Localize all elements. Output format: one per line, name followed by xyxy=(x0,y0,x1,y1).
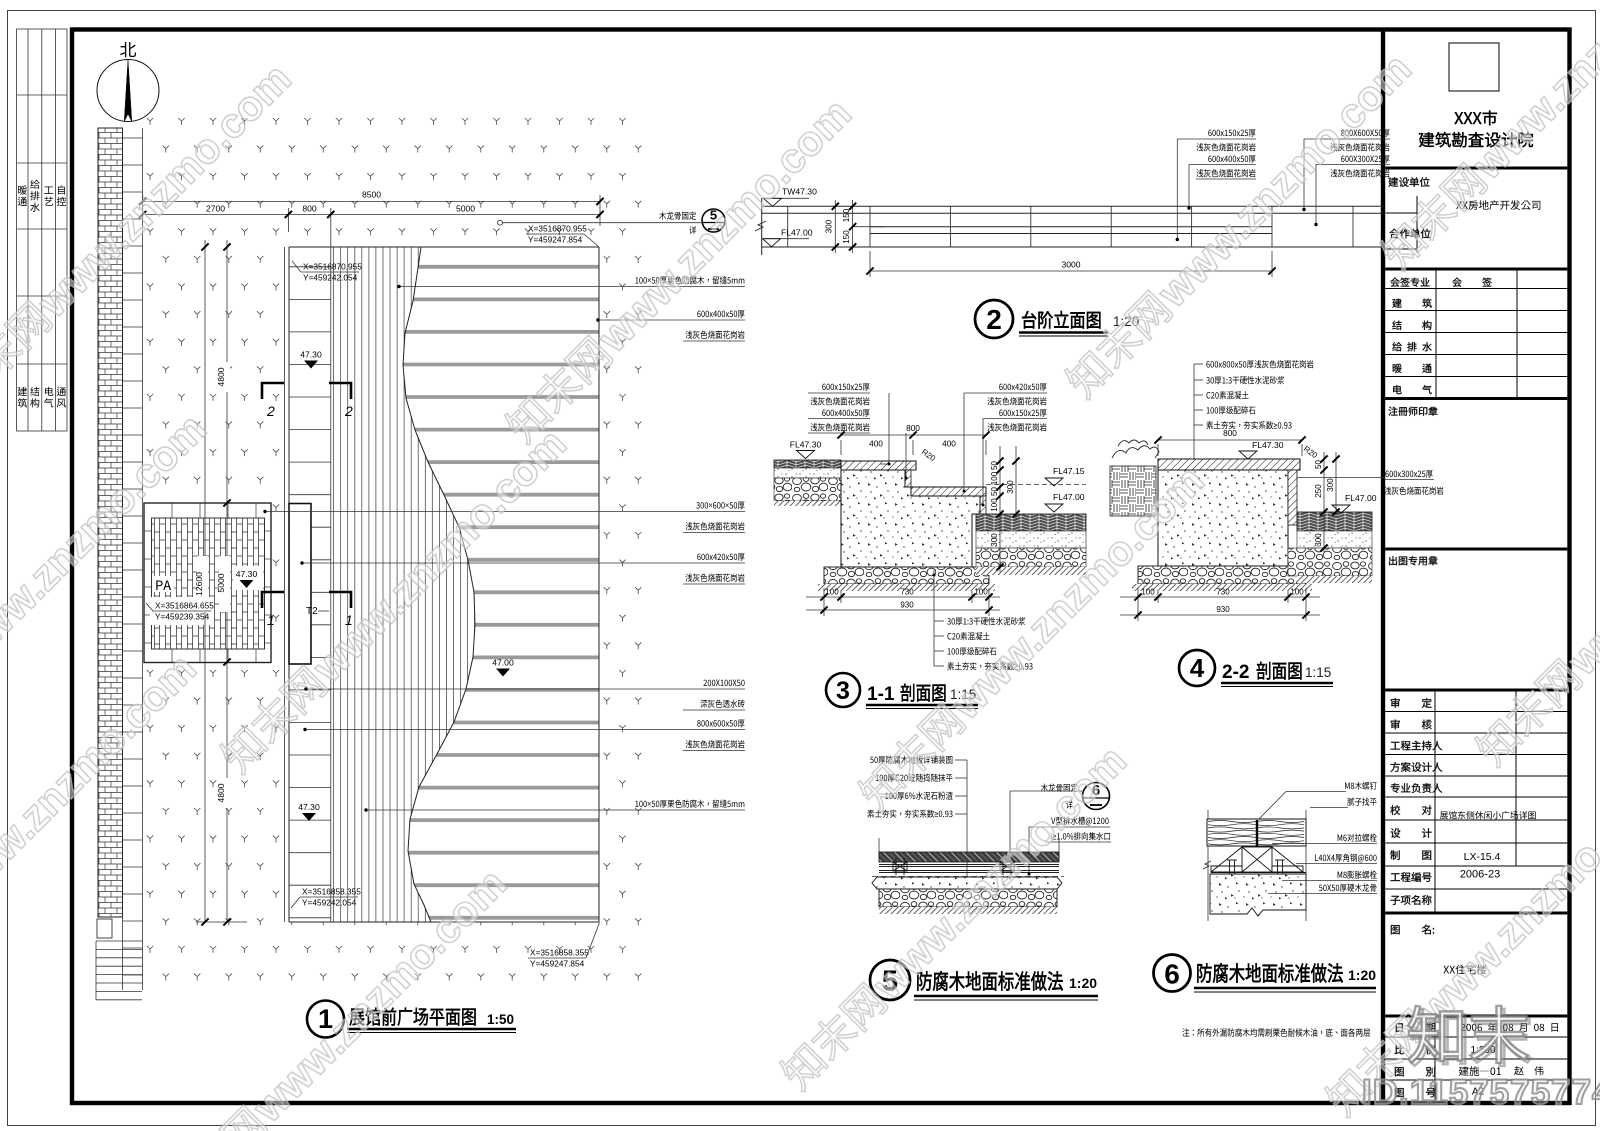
d6 angle steel with X xyxy=(1211,847,1303,872)
svg-text:730: 730 xyxy=(1216,588,1230,597)
svg-text:2700: 2700 xyxy=(206,204,225,214)
svg-text:4: 4 xyxy=(1190,653,1205,683)
svg-text:Y=459247.854: Y=459247.854 xyxy=(530,959,585,969)
svg-text:FL47.30: FL47.30 xyxy=(1252,440,1284,450)
title 4 xyxy=(1179,650,1215,686)
svg-text:Y=459247.854: Y=459247.854 xyxy=(528,235,583,245)
d6 center screw xyxy=(1256,820,1258,851)
svg-text:47.00: 47.00 xyxy=(492,658,514,668)
deck outline xyxy=(289,247,599,922)
svg-text:800: 800 xyxy=(906,423,920,433)
2-2 base gravel xyxy=(1138,566,1306,584)
north arrow xyxy=(97,60,159,122)
1-1 tread slabs xyxy=(841,461,916,470)
section marker 2-2 xyxy=(262,383,351,399)
svg-text:5000: 5000 xyxy=(216,573,226,592)
bench slab on walkway xyxy=(289,504,311,665)
owner rows xyxy=(1388,177,1429,187)
coord note walkway NW xyxy=(303,262,362,283)
svg-text:930: 930 xyxy=(900,601,914,610)
title block divider xyxy=(1381,28,1385,1106)
svg-text:730: 730 xyxy=(900,588,914,597)
svg-text:FL47.00: FL47.00 xyxy=(1053,492,1085,502)
curb band along wall xyxy=(123,128,143,990)
svg-text:300: 300 xyxy=(825,219,834,233)
detail5 title xyxy=(917,971,1063,990)
svg-text:300: 300 xyxy=(1326,478,1335,492)
svg-text:100: 100 xyxy=(1290,588,1304,597)
svg-text:930: 930 xyxy=(1216,605,1230,614)
label 浅灰色烧面花岗岩 xyxy=(685,522,744,530)
PA border joints xyxy=(144,503,271,663)
svg-text:47.30: 47.30 xyxy=(298,802,320,812)
label 100×50厚栗色防腐木，留缝5mm xyxy=(635,800,744,808)
svg-text:12600: 12600 xyxy=(194,572,204,596)
step height dims xyxy=(835,200,885,253)
leader: wood batten ref bubble xyxy=(498,220,503,225)
label 浅灰色烧面花岗岩 xyxy=(685,740,744,748)
plan material leaders xyxy=(399,286,745,288)
deck plank hatch vertical lines xyxy=(334,247,475,922)
svg-text:47.30: 47.30 xyxy=(236,569,258,579)
title 6 xyxy=(1154,955,1191,992)
label 100×50厚栗色防腐木，留缝5mm xyxy=(635,276,744,284)
svg-text:X=3516858.355: X=3516858.355 xyxy=(530,948,589,958)
label 600x400x50厚 xyxy=(697,310,744,318)
1-1 right dims xyxy=(1000,446,1016,572)
svg-text:800: 800 xyxy=(302,204,317,214)
dim 3000 xyxy=(870,251,1272,277)
d5 gravel xyxy=(879,889,1057,907)
svg-text:2006-23: 2006-23 xyxy=(1460,869,1500,881)
label 300×600×50厚 xyxy=(696,502,744,510)
big zhimo logo xyxy=(1411,1009,1531,1066)
svg-text:X=3516864.655: X=3516864.655 xyxy=(155,601,214,611)
d6 base line xyxy=(1211,872,1306,874)
svg-text:100: 100 xyxy=(825,588,839,597)
svg-text:100: 100 xyxy=(990,498,999,512)
step joints xyxy=(788,206,1353,247)
detail bubble 5 xyxy=(702,208,725,233)
granite band stripes xyxy=(336,267,599,918)
label xiang xyxy=(689,226,696,234)
title 2 step elevation xyxy=(975,300,1013,338)
svg-text:5000: 5000 xyxy=(456,204,475,214)
date scale rows xyxy=(1396,1023,1435,1033)
svg-text:2: 2 xyxy=(986,304,1002,335)
d5 joist clips xyxy=(893,858,907,875)
title block xyxy=(1385,43,1567,1101)
d6 concrete xyxy=(1210,874,1306,916)
svg-text:1: 1 xyxy=(267,612,275,628)
svg-text:3000: 3000 xyxy=(1061,260,1080,270)
svg-text:6: 6 xyxy=(1164,959,1180,990)
svg-text:400: 400 xyxy=(942,439,956,449)
plan title text xyxy=(349,1008,475,1026)
2-2 right pavement xyxy=(1297,512,1372,531)
svg-text:FL47.00: FL47.00 xyxy=(781,227,813,237)
svg-text:4800: 4800 xyxy=(216,783,226,802)
step labels group A xyxy=(1208,129,1255,137)
d5 callout bubble 6 xyxy=(1041,784,1078,792)
svg-text:2: 2 xyxy=(344,403,353,419)
svg-text:300: 300 xyxy=(990,533,999,547)
label 浅灰色烧面花岗岩 xyxy=(685,574,744,582)
d6 anchor bolts xyxy=(1227,860,1237,901)
svg-text:4800: 4800 xyxy=(216,367,226,386)
svg-text:Y=459242.054: Y=459242.054 xyxy=(302,898,357,908)
2-2 section title xyxy=(1257,662,1302,680)
d6 wood plank xyxy=(1208,810,1306,921)
svg-text:1:20: 1:20 xyxy=(1069,975,1097,991)
svg-text:100: 100 xyxy=(990,471,999,485)
label 浅灰色烧面花岗岩 xyxy=(685,331,744,339)
section marker 1-1 xyxy=(262,592,351,608)
label 600x420x50厚 xyxy=(697,553,744,561)
svg-text:100: 100 xyxy=(974,588,988,597)
2-2 label stack xyxy=(1194,364,1203,550)
svg-text:50: 50 xyxy=(990,487,999,496)
coord note walkway SW xyxy=(302,887,361,908)
svg-text:47.30: 47.30 xyxy=(300,350,322,360)
label 800x600x50厚 xyxy=(697,720,744,728)
svg-text:250: 250 xyxy=(1314,484,1323,498)
svg-text:1:20: 1:20 xyxy=(1348,967,1376,983)
svg-text:8500: 8500 xyxy=(362,190,381,200)
svg-text:1:50: 1:50 xyxy=(487,1012,514,1027)
review rows xyxy=(1391,698,1432,708)
label 600x300x25 xyxy=(1385,470,1432,478)
band break mark xyxy=(755,221,766,231)
label 200X100X50 xyxy=(704,680,745,687)
label granite xyxy=(1384,487,1443,495)
svg-text:3: 3 xyxy=(836,677,850,705)
svg-text:Y=459239.354: Y=459239.354 xyxy=(155,612,210,622)
brick boundary wall xyxy=(98,128,123,917)
coord note deck SE corner xyxy=(530,948,589,969)
svg-text:FL47.15: FL47.15 xyxy=(1053,466,1085,476)
1-1 base gravel xyxy=(824,567,989,584)
1-1 section title xyxy=(901,684,946,702)
svg-text:LX-15.4: LX-15.4 xyxy=(1464,851,1501,863)
d6 labels xyxy=(1345,782,1377,790)
coord note PA xyxy=(155,601,214,622)
left margin sign-off table xyxy=(17,29,67,431)
svg-text:150: 150 xyxy=(842,208,851,222)
north label xyxy=(120,42,136,57)
title 1 plan xyxy=(307,1001,344,1038)
bottom-left steps hatch xyxy=(96,941,142,1000)
svg-text:X=3516858.355: X=3516858.355 xyxy=(302,887,361,897)
sign table xyxy=(1390,278,1429,287)
svg-text:150: 150 xyxy=(842,230,851,244)
note xyxy=(1182,1028,1370,1037)
svg-text:50: 50 xyxy=(1314,460,1323,469)
svg-text:1-1: 1-1 xyxy=(867,684,895,705)
svg-text:T2: T2 xyxy=(306,606,318,617)
svg-text:X=3516870.955: X=3516870.955 xyxy=(528,224,587,234)
1-1 bottom dims xyxy=(806,588,1000,616)
svg-text:50: 50 xyxy=(990,461,999,470)
2-2 leader to titleblock label xyxy=(1297,477,1384,479)
svg-text:FL47.00: FL47.00 xyxy=(1345,493,1377,503)
wall footing boxes bottom-left xyxy=(97,919,112,938)
plaza deck base xyxy=(289,247,599,922)
svg-text:1:15: 1:15 xyxy=(1305,665,1331,680)
svg-text:800: 800 xyxy=(1223,428,1237,438)
svg-text:ID.1157575774: ID.1157575774 xyxy=(1362,1073,1600,1112)
PA paving bed xyxy=(144,503,271,663)
step labels group B xyxy=(1341,129,1390,137)
svg-text:400: 400 xyxy=(869,439,883,449)
PA label xyxy=(156,580,171,590)
svg-text:2-2: 2-2 xyxy=(1222,662,1249,683)
walkway slab joints xyxy=(289,247,331,922)
svg-text:300: 300 xyxy=(1006,480,1015,494)
title 3 xyxy=(826,673,860,707)
1-1 concrete body xyxy=(841,470,980,567)
label wood batten fix xyxy=(659,212,696,220)
deck boundary S-curve xyxy=(403,247,475,922)
svg-text:FL47.30: FL47.30 xyxy=(790,440,822,450)
step elevation band xyxy=(762,198,1383,255)
2-2 bottom dims xyxy=(1120,588,1320,621)
institute name xyxy=(1454,110,1497,125)
svg-text:100: 100 xyxy=(1141,588,1155,597)
2-2 slab & concrete xyxy=(1158,459,1300,470)
dim 8500 xyxy=(143,195,600,247)
svg-text:2: 2 xyxy=(266,403,275,419)
2-2 planting left xyxy=(1110,466,1156,516)
vertical dim chain 12600 xyxy=(196,240,247,922)
1-1 left pavement layers xyxy=(774,460,841,468)
svg-text:300: 300 xyxy=(1314,533,1323,547)
label 深灰色透水砖 xyxy=(700,700,744,708)
1-1 labels left xyxy=(822,383,869,391)
d6 break marks xyxy=(1203,861,1211,869)
title 5 xyxy=(870,960,910,1000)
discipline labels (vertical) xyxy=(18,185,27,194)
1-1 right pavement xyxy=(976,514,1086,531)
step elevation title xyxy=(1022,311,1100,329)
2-2 right dims xyxy=(1324,452,1336,552)
1-1 labels right xyxy=(999,383,1046,391)
detail6 title xyxy=(1197,963,1343,982)
coord note deck NE corner xyxy=(528,224,587,245)
svg-text:Y=459242.054: Y=459242.054 xyxy=(303,273,358,283)
svg-text:X=3516870.955: X=3516870.955 xyxy=(303,262,362,272)
d5 deck band xyxy=(878,838,880,858)
d5 labels xyxy=(870,756,952,764)
d5 concrete xyxy=(872,877,1062,889)
1-1 layer callouts xyxy=(934,570,944,666)
